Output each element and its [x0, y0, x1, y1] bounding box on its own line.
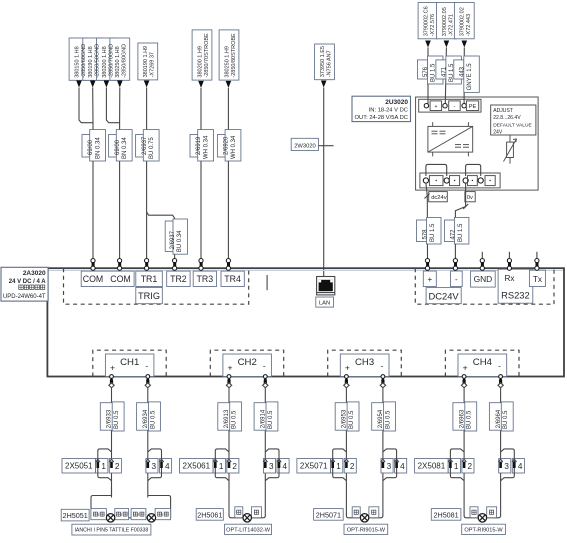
connector 2X5071 pin 1: [331, 459, 343, 474]
svg-text:DC24V: DC24V: [428, 290, 459, 301]
svg-text:-X72.471: -X72.471: [448, 14, 454, 36]
svg-text:BU 0.5: BU 0.5: [114, 410, 120, 429]
PSU converter pins: [433, 122, 469, 156]
label DC24V: [426, 288, 461, 304]
connector 2X5051 pin 3: [146, 459, 158, 474]
connector 2X5071 label: [297, 459, 331, 474]
svg-text:4: 4: [400, 462, 405, 471]
svg-text:-: -: [454, 104, 456, 110]
power supply U1 info box 2U3020: [352, 96, 411, 121]
connector 2X5061 pin 1: [213, 459, 225, 474]
svg-text:CH2: CH2: [238, 357, 257, 368]
svg-text:380250 1.H8: 380250 1.H8: [115, 46, 121, 78]
terminal CH2-: [263, 375, 267, 379]
contact pin1: [96, 459, 100, 462]
lamp color label: [131, 509, 146, 520]
wire Rx stub: [508, 252, 510, 259]
svg-text:2/6919: 2/6919: [196, 136, 202, 155]
wire label 2/6953 BU 0.5: [335, 403, 348, 431]
channel block CH3: [340, 354, 389, 377]
svg-text:24V: 24V: [493, 130, 503, 136]
node label -X72.576: [418, 3, 438, 39]
svg-text:2/6937: 2/6937: [170, 230, 176, 249]
connector 2X5061 label: [180, 459, 214, 474]
svg-text:471: 471: [442, 66, 448, 77]
PSU converter symbol: [428, 126, 473, 152]
wire label 2/6937 BU 0.34 (TR2): [165, 221, 179, 251]
terminal block COM COM: [81, 271, 134, 286]
arrow TR1: [144, 81, 150, 88]
arrow source pointer: [104, 81, 110, 88]
power supply U1 outline: [416, 97, 538, 190]
svg-text:3: 3: [152, 462, 157, 471]
wire label 69/00 BN 0.34 (COM2): [109, 135, 126, 158]
terminal TR3: [193, 271, 216, 286]
PSU output terminal: [444, 178, 449, 183]
svg-text:3: 3: [387, 462, 392, 471]
contact pin2: [109, 459, 113, 462]
terminal TR2: [167, 271, 190, 286]
wire label 2/6963 BU 0.5: [453, 403, 466, 431]
svg-text:IN: 18-24 V DC: IN: 18-24 V DC: [369, 107, 408, 113]
connector 2X5081 pin 4: [512, 459, 524, 474]
connector 2X5081 label: [415, 459, 449, 474]
node label cable -2850/70GND: [97, 38, 117, 80]
svg-text:576: 576: [423, 66, 429, 77]
PSU input terminal +: [424, 104, 428, 108]
wire label 471 BU 1.5: [436, 60, 446, 79]
svg-text:0v: 0v: [467, 195, 473, 201]
svg-text:3: 3: [269, 462, 274, 471]
wire label 2/6954 BU 0.5: [372, 403, 385, 431]
channel block CH4 dashed: [445, 350, 519, 376]
terminal CH4+: [462, 375, 466, 379]
svg-text:578: 578: [423, 229, 429, 240]
svg-text:TR4: TR4: [224, 274, 241, 284]
node label -X72.443: [454, 3, 474, 39]
controller info box 2A3020: [1, 267, 48, 301]
device box OPT-RI9015-W: [344, 524, 388, 534]
contact pin3: [498, 459, 502, 462]
terminal block RS232 / Rx: [498, 269, 533, 303]
lamp color label BN: [470, 507, 478, 518]
terminal CH3+: [345, 375, 349, 379]
lamp color label: [155, 509, 171, 520]
node label cable -2850/50GND: [83, 38, 103, 80]
PSU adjust info box: [491, 105, 536, 135]
channel block CH4: [458, 354, 507, 377]
wire TR1: [146, 88, 148, 259]
wire 2H5061 - lead: [252, 516, 266, 518]
controller 2A3020 main box: [47, 268, 564, 376]
wire TR3: [200, 88, 202, 258]
svg-text:380150 1.H8: 380150 1.H8: [74, 46, 80, 78]
svg-text:3790002.C6: 3790002.C6: [423, 6, 429, 36]
svg-text:2A3020: 2A3020: [23, 270, 46, 277]
channel block CH1: [105, 354, 153, 377]
wire 2/6963 (CH4+): [463, 388, 465, 517]
wire 2H5071 + lead: [346, 516, 360, 518]
svg-text:+: +: [110, 362, 115, 372]
PSU input terminal PE: [462, 104, 466, 108]
svg-text:22.8...26.4V: 22.8...26.4V: [493, 115, 521, 121]
connector 2X5081 pin 2: [462, 459, 474, 474]
svg-text:2: 2: [115, 462, 120, 471]
connector 2X5081 pin 1: [448, 459, 460, 474]
svg-text:1: 1: [336, 462, 341, 471]
svg-text:2/6914: 2/6914: [261, 409, 267, 428]
PSU output bridge 3-4: [466, 164, 481, 176]
channel block CH1 dashed: [93, 350, 166, 376]
contact pin3: [146, 459, 150, 462]
wire bridge pins1-2 2X5081: [450, 449, 464, 481]
svg-text:WH 0.34: WH 0.34: [231, 135, 237, 159]
contact pin4: [277, 459, 281, 462]
wire CH1- to lamp bus: [148, 496, 171, 518]
wire label 2/6920 WH 0.34 (TR4): [217, 135, 234, 158]
wire label 2/6913 BU 0.5: [218, 403, 231, 431]
terminal plug-socket pair: [199, 259, 203, 263]
connector 2X5071 pin 3: [381, 459, 393, 474]
svg-text:373950 1.E5: 373950 1.E5: [320, 46, 326, 77]
svg-text:2/6934: 2/6934: [143, 409, 149, 428]
contact pin1: [331, 459, 335, 462]
node label -X72.471: [437, 3, 457, 39]
svg-text:-2850/70STROBE: -2850/70STROBE: [204, 33, 210, 78]
wire bridge pins3-4 2X5081: [501, 449, 515, 481]
svg-text:2: 2: [350, 462, 355, 471]
terminal GND: [471, 271, 496, 287]
wire 2H5081 + lead: [464, 516, 478, 518]
svg-text:BU 0.5: BU 0.5: [386, 410, 392, 429]
svg-text:1: 1: [454, 462, 459, 471]
svg-text:2H5071: 2H5071: [316, 510, 341, 519]
terminal plug-socket pair: [425, 259, 429, 263]
svg-text:Tx: Tx: [533, 275, 542, 284]
wire bridge pins3-4 2X5061: [265, 449, 279, 481]
wire label 576 BU 1.5: [418, 60, 428, 79]
node label -N756 AN7 (LAN source): [315, 44, 335, 80]
wire label 2/6937 BU 0.75 (TR1): [136, 135, 153, 158]
svg-text:+: +: [427, 275, 432, 284]
svg-text:TR1: TR1: [141, 274, 158, 284]
terminal CH1-: [146, 375, 150, 379]
svg-text:2X5081: 2X5081: [418, 462, 446, 471]
connector 2X5061 pin 3: [263, 459, 275, 474]
svg-text:2: 2: [232, 462, 237, 471]
terminal plug-socket pair: [453, 259, 457, 263]
svg-text:-: -: [498, 361, 501, 371]
contact pin2: [462, 459, 466, 462]
device box IANCHI: [72, 524, 151, 535]
connector 2X5051 pin 4: [160, 459, 172, 474]
svg-text:OPT-RI9015-W: OPT-RI9015-W: [347, 527, 386, 533]
terminal TR4: [221, 271, 244, 286]
svg-text:2X5071: 2X5071: [300, 462, 328, 471]
svg-text:2W3020: 2W3020: [294, 143, 316, 149]
svg-text:OPT-LIT14032-W: OPT-LIT14032-W: [226, 527, 271, 533]
svg-text:OPT-RI9015-W: OPT-RI9015-W: [464, 527, 503, 533]
wire PSU L-: [445, 48, 446, 105]
wire COM2: [119, 88, 121, 259]
wire GND stub: [481, 252, 483, 259]
svg-text:1: 1: [101, 462, 106, 471]
wire bridge pins1-2 2X5071: [333, 449, 347, 481]
dashed trigger group box: [64, 268, 249, 304]
connector 2X5051 label: [62, 459, 96, 474]
svg-text:OUT: 24-28 V/5A DC: OUT: 24-28 V/5A DC: [355, 115, 408, 121]
svg-text:2/6933: 2/6933: [107, 409, 113, 428]
svg-text:TR3: TR3: [196, 274, 213, 284]
svg-text:BN 0.34: BN 0.34: [96, 137, 102, 159]
wire PSU PE: [463, 48, 465, 105]
rail accent: [47, 270, 564, 272]
PSU output terminal strip: [420, 173, 500, 188]
arrow LAN: [321, 81, 327, 88]
lamp color label: [115, 509, 129, 520]
svg-text:CH4: CH4: [473, 357, 493, 368]
label 2H5081: [431, 509, 461, 521]
svg-text:-2850/60GND: -2850/60GND: [81, 44, 87, 78]
svg-text:3790002.05: 3790002.05: [442, 7, 448, 36]
svg-text:-: -: [380, 361, 383, 371]
svg-text:2/6953: 2/6953: [342, 409, 348, 428]
arrow source pointer: [76, 81, 82, 88]
svg-text:2/6937: 2/6937: [142, 136, 148, 155]
contact pin3: [381, 459, 385, 462]
svg-text:-: -: [145, 361, 148, 371]
channel block CH3 dashed: [328, 350, 402, 376]
svg-text:380200 1.H8: 380200 1.H8: [102, 46, 108, 78]
channel block CH2: [223, 354, 272, 377]
lamp color label WH: [369, 507, 379, 518]
wire 2H5081 - lead: [487, 516, 501, 518]
lamp 2H5061: [243, 514, 251, 522]
terminal TR1: [136, 271, 163, 286]
terminal plug-socket pair: [91, 259, 95, 263]
svg-text:-X7269 37: -X7269 37: [150, 52, 156, 77]
label LAN: [316, 297, 334, 307]
svg-text:LAN: LAN: [319, 301, 330, 307]
terminal plug-socket pair: [145, 259, 149, 263]
svg-text:UPD-24W60-4T: UPD-24W60-4T: [3, 294, 46, 300]
PSU potentiometer R-adjust: [509, 135, 511, 164]
wire 2H5071 - lead: [369, 516, 383, 518]
contact pin4: [159, 459, 163, 462]
node label -2850/70STROBE: [192, 30, 212, 80]
label 2H5051: [61, 509, 89, 521]
svg-text:69/00: 69/00: [88, 139, 94, 155]
svg-text:2H5081: 2H5081: [434, 510, 459, 519]
svg-text:4: 4: [283, 462, 288, 471]
lamp 2H5071: [360, 514, 368, 522]
wire label 472 BU 1.5: [444, 220, 457, 242]
svg-text:-2850/50GND: -2850/50GND: [95, 44, 101, 78]
svg-text:-2850/70GND: -2850/70GND: [108, 44, 114, 78]
lamp color label WH: [487, 507, 497, 518]
svg-text:2/6964: 2/6964: [496, 409, 502, 428]
wire bridge pins3-4 2X5071: [383, 449, 397, 481]
device box OPT-LIT14032-W: [225, 524, 272, 534]
wire label 443 GNYE 1.5: [454, 60, 464, 79]
wire dc24v to DC24V+: [426, 183, 428, 258]
label 2H5061: [196, 509, 223, 521]
connector 2X5061 pin 4: [277, 459, 289, 474]
svg-text:2H5061: 2H5061: [197, 510, 222, 519]
svg-text:BU 0.75: BU 0.75: [149, 137, 155, 159]
terminal plug-socket pair: [480, 259, 484, 263]
svg-text:IANCHI I PIN5 TATTILE F00338: IANCHI I PIN5 TATTILE F00338: [74, 528, 148, 534]
svg-text:+: +: [345, 362, 350, 372]
connector 2X5061 pin 2: [227, 459, 239, 474]
terminal DC24V +: [423, 271, 436, 287]
svg-text:4: 4: [165, 462, 170, 471]
svg-text:BU 0.34: BU 0.34: [177, 230, 183, 252]
svg-text:COM: COM: [110, 274, 131, 284]
wire label 2/6934 BU 0.5: [137, 403, 150, 431]
wire COM1: [92, 88, 94, 259]
wire bridge pins1-2 2X5061: [215, 449, 229, 481]
svg-text:443: 443: [460, 66, 466, 77]
wire between lamps: [115, 517, 147, 519]
connector 2X5071 pin 4: [395, 459, 407, 474]
terminal DC24V -: [451, 271, 463, 287]
wire 2/6913 (CH2+): [228, 388, 230, 517]
svg-text:GND: GND: [474, 274, 493, 284]
svg-text:2X5051: 2X5051: [65, 462, 93, 471]
connector 2X5051 pin 1: [96, 459, 108, 474]
svg-text:380250 1.H9: 380250 1.H9: [224, 46, 230, 78]
arrow PSU feed: [425, 41, 431, 48]
svg-text:BU 0.5: BU 0.5: [503, 410, 509, 429]
svg-text:RS232: RS232: [501, 290, 530, 301]
lamp color label WH: [252, 507, 262, 518]
lamp color label: [91, 509, 107, 520]
wire label 578 BU 1.5: [417, 220, 430, 242]
svg-text:2H5051: 2H5051: [63, 511, 88, 520]
svg-text:WH 0.34: WH 0.34: [204, 135, 210, 159]
lamp color label BN: [352, 507, 360, 518]
svg-text:2/6920: 2/6920: [224, 136, 230, 155]
PSU output label dc24v: [429, 192, 448, 202]
svg-text:PE: PE: [469, 104, 477, 110]
connector 2X5081 pin 3: [499, 459, 511, 474]
wire 2/6914 (CH2-): [264, 388, 266, 517]
svg-text:BU 1.5: BU 1.5: [458, 223, 464, 242]
PSU output terminal: [423, 178, 428, 183]
cable label 2W3020 (LAN): [291, 138, 318, 150]
wire LAN: [323, 88, 325, 278]
wire label 2/6914 BU 0.5: [254, 403, 267, 431]
contact pin4: [394, 459, 398, 462]
svg-text:DEFAULT VALUE: DEFAULT VALUE: [493, 122, 532, 128]
node label cable -2850/60GND: [69, 38, 89, 80]
terminal plug-socket pair: [118, 259, 122, 263]
lamp color label BN: [235, 507, 243, 518]
arrow PSU feed: [444, 41, 450, 48]
controller info CJK line: [19, 285, 23, 289]
divider mark: [266, 275, 268, 290]
svg-text:380200 1.H9: 380200 1.H9: [197, 46, 203, 78]
wire Tx stub: [536, 252, 538, 259]
device box OPT-RI9015-W: [462, 524, 506, 534]
svg-text:CH1: CH1: [120, 357, 139, 368]
contact pin1: [448, 459, 452, 462]
wire COM1 jog: [79, 88, 93, 123]
svg-text:BU 0.5: BU 0.5: [467, 410, 473, 429]
wire label 2/6964 BU 0.5: [489, 403, 502, 431]
wire TR4: [227, 88, 229, 258]
svg-text:2: 2: [468, 462, 473, 471]
wire 2/6953 (CH3+): [345, 388, 347, 517]
svg-text:CH3: CH3: [355, 357, 374, 368]
svg-text:BU 0.5: BU 0.5: [349, 410, 355, 429]
label TRIG: [136, 287, 163, 303]
lamp 2H5081: [478, 514, 486, 522]
svg-text:2/6963: 2/6963: [459, 409, 465, 428]
svg-text:COM: COM: [83, 274, 104, 284]
PSU input terminal strip: [419, 99, 481, 112]
svg-text:2X5061: 2X5061: [183, 462, 211, 471]
terminal plug-socket pair: [226, 259, 230, 263]
dashed DC24V/RS232 group box: [415, 268, 554, 304]
svg-text:BN 0.34: BN 0.34: [122, 137, 128, 159]
svg-text:dc24v: dc24v: [431, 195, 447, 201]
arrow source pointer: [117, 81, 123, 88]
wire label 2/6933 BU 0.5: [100, 403, 113, 431]
PSU output terminal: [478, 178, 483, 183]
svg-text:BU 0.5: BU 0.5: [150, 410, 156, 429]
PSU output label 0v: [465, 192, 475, 202]
wire label 2/6919 WH 0.34 (TR3): [190, 135, 207, 158]
svg-text:-: -: [263, 361, 266, 371]
svg-text:-: -: [455, 275, 458, 284]
wire bridge pins3-4 2X5051: [148, 449, 162, 481]
arrow PSU feed: [462, 41, 468, 48]
terminal CH4-: [499, 375, 503, 379]
wire 2/6954 (CH3-): [382, 388, 384, 517]
wire TR1-TR2 branch: [147, 212, 175, 258]
contact pin1: [213, 459, 217, 462]
terminal CH1+: [110, 375, 114, 379]
svg-text:3790002.02: 3790002.02: [460, 7, 466, 36]
channel block CH2 dashed: [210, 350, 283, 376]
lamp E2: [147, 514, 155, 522]
contact pin4: [512, 459, 516, 462]
svg-text:TR2: TR2: [170, 274, 187, 284]
wire label 69/00 BN 0.34 (COM1): [82, 135, 99, 158]
svg-text:-X72.443: -X72.443: [466, 14, 472, 36]
svg-text:BU 0.5: BU 0.5: [268, 410, 274, 429]
svg-text:-X72.576: -X72.576: [430, 14, 436, 36]
PSU output terminal: [463, 178, 468, 183]
svg-text:4: 4: [518, 462, 523, 471]
svg-text:2U3020: 2U3020: [385, 99, 408, 106]
terminal plug-socket pair: [535, 259, 539, 263]
svg-text:Rx: Rx: [504, 274, 514, 283]
svg-text:-N756 AN7: -N756 AN7: [326, 50, 332, 77]
svg-text:24 V DC / 4 A: 24 V DC / 4 A: [9, 279, 46, 285]
svg-text:+: +: [434, 104, 437, 110]
svg-text:+: +: [463, 362, 468, 372]
contact pin2: [344, 459, 348, 462]
wire 2H5061 + lead: [229, 516, 243, 518]
wire bridge pins1-2 2X5051: [98, 449, 112, 481]
lamp E1: [106, 514, 114, 522]
wire 2/6934 (CH1-): [147, 388, 149, 498]
wire CH1+ to lamp bus: [91, 496, 112, 518]
svg-text:ADJUST: ADJUST: [493, 108, 513, 114]
